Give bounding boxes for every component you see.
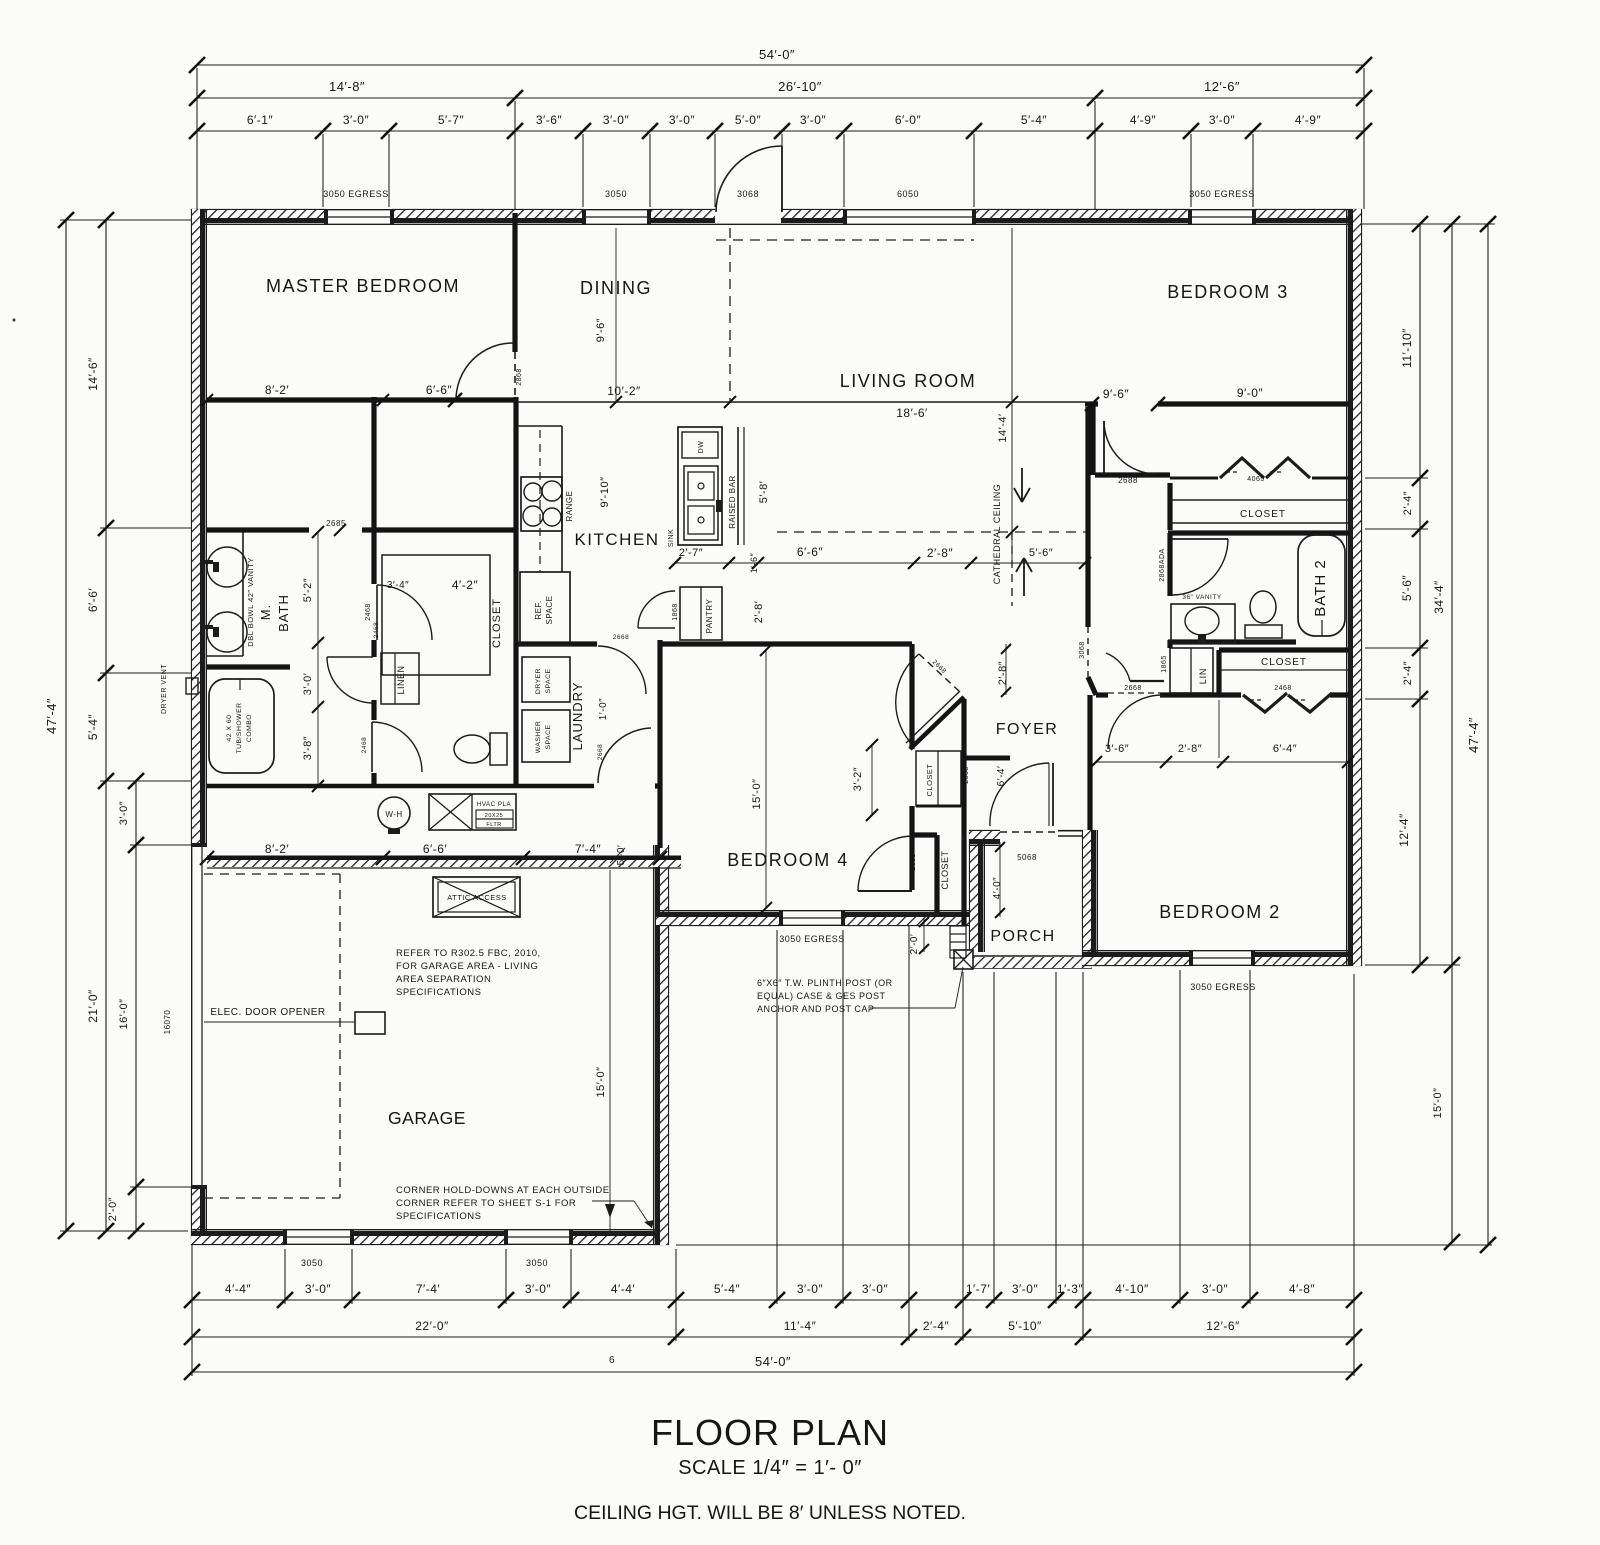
- svg-text:2′-8″: 2′-8″: [1178, 743, 1202, 755]
- svg-text:DW: DW: [698, 441, 705, 454]
- svg-text:CATHEDRAL CEILING: CATHEDRAL CEILING: [992, 484, 1002, 585]
- svg-text:5′-6″: 5′-6″: [1029, 547, 1053, 559]
- svg-text:2′-4″: 2′-4″: [923, 1319, 950, 1333]
- dim line 54-0 top: [197, 64, 1364, 66]
- svg-text:15′-0″: 15′-0″: [595, 1067, 607, 1098]
- tub partition wall: [207, 664, 290, 669]
- bath2 west wall lower: [1167, 640, 1172, 648]
- svg-text:3′-0″: 3′-0″: [800, 113, 827, 127]
- top exterior wall segment: [974, 209, 1190, 211]
- svg-text:BATH 2: BATH 2: [1312, 559, 1329, 616]
- bedroom4 south exterior wall: [843, 924, 969, 926]
- bed2 west wall upper: [1087, 695, 1092, 758]
- tub faucet: [239, 679, 241, 690]
- svg-text:1865: 1865: [1161, 655, 1168, 673]
- leader post: [870, 1007, 955, 1009]
- ext line garage bottom extended: [676, 1244, 1492, 1246]
- mbath inner door arc: [327, 657, 373, 703]
- svg-text:2668: 2668: [1124, 685, 1142, 692]
- svg-text:12′-6″: 12′-6″: [1206, 1319, 1240, 1333]
- ext line: [1082, 972, 1084, 1341]
- ext line: [1365, 647, 1428, 649]
- svg-text:3050: 3050: [526, 1258, 548, 1268]
- bath2 toilet tank: [1245, 625, 1282, 638]
- svg-text:11′-10″: 11′-10″: [1400, 328, 1414, 368]
- sink bowl 2: [688, 506, 714, 534]
- svg-text:6′-0″: 6′-0″: [895, 113, 922, 127]
- svg-text:CLOSET: CLOSET: [491, 598, 503, 648]
- ext line: [191, 1245, 193, 1376]
- bed3 west wall: [1090, 404, 1095, 475]
- svg-text:3′-6″: 3′-6″: [1105, 743, 1129, 755]
- opener box: [355, 1012, 385, 1034]
- svg-text:4′-4″: 4′-4″: [225, 1282, 252, 1296]
- ext line: [1363, 68, 1365, 209]
- svg-text:36″ VANITY: 36″ VANITY: [1182, 594, 1221, 601]
- svg-text:3′-0″: 3′-0″: [118, 801, 130, 825]
- svg-text:2668: 2668: [597, 744, 604, 760]
- svg-text:FOYER: FOYER: [996, 721, 1059, 738]
- dim line 3-2: [871, 745, 873, 815]
- svg-text:14′-6″: 14′-6″: [86, 357, 100, 391]
- svg-text:SPACE: SPACE: [545, 595, 554, 624]
- svg-text:18′-6′: 18′-6′: [896, 406, 928, 420]
- svg-text:BEDROOM 2: BEDROOM 2: [1159, 902, 1281, 922]
- bed2 closet shelf line: [1219, 669, 1349, 671]
- dim line 47-4 left: [65, 220, 67, 1231]
- svg-text:LIVING ROOM: LIVING ROOM: [840, 371, 977, 391]
- bed4 closet inner line: [962, 835, 964, 912]
- svg-text:1′-0″: 1′-0″: [598, 698, 609, 720]
- window 3050 egress bed4: [781, 924, 843, 926]
- washer space box: [522, 710, 570, 762]
- bed3 south wall w stub: [1085, 401, 1098, 406]
- svg-text:SPECIFICATIONS: SPECIFICATIONS: [396, 987, 481, 998]
- ref space box: [520, 572, 570, 645]
- svg-text:3068: 3068: [1079, 641, 1086, 659]
- filter box1: [476, 810, 513, 819]
- ext line: [714, 134, 716, 207]
- bed4 closet north stub: [912, 832, 937, 837]
- pantry door arc: [638, 591, 675, 628]
- ext line: [1094, 101, 1096, 209]
- svg-text:3′-6″: 3′-6″: [536, 113, 563, 127]
- bed4 east wall lower: [909, 806, 914, 890]
- burner4: [543, 508, 561, 526]
- svg-text:6′-6′: 6′-6′: [423, 842, 448, 856]
- garage door dashed bottom: [204, 1197, 340, 1199]
- ext line: [1365, 698, 1428, 700]
- faucet1: [203, 560, 213, 564]
- burner1: [524, 483, 542, 501]
- bath2 tub: [1298, 535, 1345, 636]
- svg-text:26′-10″: 26′-10″: [778, 79, 822, 94]
- svg-text:6: 6: [609, 1355, 615, 1366]
- bed3 door arc: [1104, 421, 1157, 474]
- toilet room door arc: [372, 722, 422, 772]
- svg-text:42 X 60: 42 X 60: [226, 715, 233, 742]
- mbath/laundry south wall: [207, 784, 594, 789]
- porch door 5068 opening dashed: [1000, 831, 1058, 833]
- garage bottom exterior wall: [571, 1243, 669, 1245]
- garage door jamb top: [191, 843, 207, 847]
- left exterior wall lower: [191, 1187, 193, 1245]
- svg-text:HVAC PLA: HVAC PLA: [477, 801, 512, 808]
- svg-text:ATTIC ACCESS: ATTIC ACCESS: [447, 893, 507, 902]
- burner3: [523, 506, 543, 526]
- ext line: [60, 1230, 188, 1232]
- bed3 closet south line: [1170, 522, 1352, 524]
- svg-text:10′-2″: 10′-2″: [607, 384, 641, 398]
- svg-text:6050: 6050: [897, 189, 919, 199]
- ext line: [1365, 964, 1460, 966]
- svg-text:3′-0′: 3′-0′: [302, 673, 314, 696]
- svg-text:1′-7′: 1′-7′: [966, 1282, 991, 1296]
- ext line: [1252, 134, 1254, 207]
- svg-text:9′-6″: 9′-6″: [1103, 387, 1130, 401]
- ext line: [1190, 134, 1192, 207]
- svg-text:2665: 2665: [910, 853, 917, 871]
- left exterior wall upper: [191, 209, 193, 845]
- garage window 3050 left: [285, 1243, 352, 1245]
- right exterior wall: [1360, 209, 1362, 966]
- foyer entry door leaf: [1052, 763, 1054, 826]
- svg-text:14′-8″: 14′-8″: [329, 79, 365, 94]
- garage door opening outer line: [191, 845, 193, 1187]
- svg-text:6″X6″ T.W. PLINTH POST (OR: 6″X6″ T.W. PLINTH POST (OR: [757, 978, 893, 988]
- svg-text:3050: 3050: [301, 1258, 323, 1268]
- bath2 north wall: [1168, 530, 1349, 535]
- ext line: [196, 68, 198, 209]
- porch west wall: [969, 830, 971, 952]
- svg-text:47′-4″: 47′-4″: [44, 698, 59, 734]
- toilet master bath: [454, 735, 490, 763]
- dim line left col3: [135, 781, 137, 1231]
- diagonal door dashed leaf: [919, 654, 959, 691]
- ext line: [1055, 972, 1057, 1304]
- porch slab south edge: [969, 955, 1092, 957]
- opener rail line: [204, 1021, 325, 1023]
- svg-text:3′-0″: 3′-0″: [603, 113, 630, 127]
- bed4 north wall: [660, 641, 912, 646]
- porch slab hatch: [969, 957, 1092, 968]
- svg-text:6′-1″: 6′-1″: [247, 113, 274, 127]
- porch steps: [950, 925, 966, 927]
- dishwasher: [682, 432, 718, 458]
- svg-text:3′-0″: 3′-0″: [343, 113, 370, 127]
- svg-text:21′-0″: 21′-0″: [86, 989, 100, 1023]
- lin door arc: [1106, 653, 1130, 681]
- ext line: [514, 101, 516, 209]
- bath2 sink: [1185, 607, 1219, 635]
- garage door dashed top: [204, 873, 340, 875]
- garage bottom exterior wall: [352, 1243, 506, 1245]
- svg-text:3050 EGRESS: 3050 EGRESS: [1190, 982, 1256, 992]
- top exterior wall segment: [191, 209, 326, 211]
- linen closet master hall: [381, 653, 419, 704]
- svg-text:15′-0″: 15′-0″: [751, 779, 763, 810]
- living dim line: [1011, 228, 1013, 563]
- svg-text:FOR GARAGE AREA - LIVING: FOR GARAGE AREA - LIVING: [396, 961, 538, 972]
- svg-text:CEILING HGT. WILL BE 8′ UNLESS: CEILING HGT. WILL BE 8′ UNLESS NOTED.: [574, 1502, 966, 1524]
- ceiling arrow down: [1014, 468, 1030, 502]
- ext line: [1353, 974, 1355, 1376]
- svg-text:3′-8″: 3′-8″: [302, 736, 314, 760]
- dryer vent box: [186, 678, 198, 694]
- svg-text:SPACE: SPACE: [545, 668, 552, 693]
- svg-text:5′-10″: 5′-10″: [1008, 1319, 1042, 1333]
- svg-text:2′-8″: 2′-8″: [997, 661, 1009, 685]
- dryer space box: [522, 657, 570, 702]
- svg-text:8′-2′: 8′-2′: [265, 842, 290, 856]
- svg-text:12′-6″: 12′-6″: [1204, 79, 1240, 94]
- kitchen counter dash line: [539, 430, 541, 572]
- raised bar line: [737, 427, 739, 545]
- faucet: [1198, 634, 1206, 644]
- garage east exterior wall: [667, 845, 669, 1245]
- svg-text:2′-0″: 2′-0″: [107, 1197, 119, 1221]
- garage bottom exterior wall: [191, 1243, 285, 1245]
- ext line: [1249, 970, 1251, 1304]
- svg-text:4′-8″: 4′-8″: [1289, 1282, 1316, 1296]
- foyer entry door arc: [990, 763, 1049, 826]
- mbath east wall seg1: [371, 530, 376, 584]
- svg-text:2′-8′: 2′-8′: [753, 601, 765, 624]
- vanity counter edge: [242, 532, 244, 656]
- faucet2: [203, 625, 213, 629]
- dim line foyer row: [675, 562, 1085, 564]
- dim line row3 top: [197, 130, 1364, 132]
- laundry north door arc: [598, 646, 646, 694]
- foyer diagonal wall: [910, 697, 964, 749]
- dim line mbath vertical: [317, 532, 319, 786]
- bath2 toilet: [1250, 591, 1276, 623]
- closet front wall e: [1312, 477, 1352, 480]
- mbath east wall seg2: [371, 640, 376, 657]
- svg-text:GARAGE: GARAGE: [388, 1108, 466, 1128]
- svg-text:3050 EGRESS: 3050 EGRESS: [1189, 189, 1255, 199]
- ext line: [570, 1249, 572, 1304]
- svg-text:FLTR: FLTR: [486, 822, 501, 828]
- master bedroom door arc: [456, 343, 513, 400]
- cathedral ceiling dashed: [777, 531, 1086, 533]
- bed3 door leaf: [1103, 421, 1105, 474]
- diagonal door arc: [896, 654, 919, 742]
- svg-text:3068: 3068: [737, 189, 759, 199]
- svg-text:3′-0″: 3′-0″: [669, 113, 696, 127]
- master closet west wall upper: [371, 397, 376, 530]
- svg-text:7′-4′: 7′-4′: [416, 1282, 441, 1296]
- svg-text:LAUNDRY: LAUNDRY: [570, 682, 585, 751]
- svg-text:3050: 3050: [605, 189, 627, 199]
- bifold door bed2 closet w: [1243, 693, 1287, 712]
- bed4 closet door arc: [858, 836, 912, 891]
- svg-text:KITCHEN: KITCHEN: [574, 530, 659, 549]
- bed2 north wall stub w: [1096, 692, 1108, 697]
- bedroom4 south exterior wall: [656, 924, 781, 926]
- wall jog: [1088, 677, 1096, 695]
- svg-text:5′-4″: 5′-4″: [714, 1282, 741, 1296]
- svg-text:4′-9″: 4′-9″: [1130, 113, 1157, 127]
- top exterior wall segment: [781, 209, 845, 211]
- svg-text:2688: 2688: [1118, 476, 1138, 485]
- ext line: [993, 972, 995, 1304]
- bed4 closet east wall: [961, 699, 966, 926]
- vanity sink 2: [207, 612, 247, 652]
- tub2 faucet: [1321, 620, 1323, 636]
- kitchen island: [678, 427, 722, 545]
- master bath north wall e: [362, 527, 516, 532]
- top exterior wall segment: [392, 209, 584, 211]
- svg-text:3′-0″: 3′-0″: [1012, 1282, 1039, 1296]
- kitchen counter edge west: [561, 426, 563, 572]
- bed2 closet west wall: [1216, 650, 1221, 693]
- dim line right col2: [1451, 224, 1453, 1242]
- bifold door bed2 closet e: [1288, 693, 1332, 712]
- water heater: [378, 797, 410, 829]
- hvac platform: [429, 794, 516, 830]
- svg-text:CLOSET: CLOSET: [1261, 657, 1307, 668]
- garage separation wall: [207, 856, 681, 861]
- svg-text:47′-4″: 47′-4″: [1466, 717, 1481, 753]
- svg-text:34′-4″: 34′-4″: [1432, 580, 1446, 614]
- svg-text:2′-7″: 2′-7″: [679, 547, 703, 559]
- laundry south stub: [655, 783, 660, 788]
- ext line: [962, 972, 964, 1341]
- ext line: [388, 134, 390, 207]
- foyer south wall stub: [963, 756, 1010, 761]
- svg-text:1868: 1868: [672, 603, 679, 621]
- bifold bed3 closet e: [1266, 458, 1310, 478]
- svg-text:PORCH: PORCH: [990, 928, 1055, 945]
- ext line: [1362, 223, 1495, 225]
- dim line left col2: [105, 220, 107, 1231]
- sink bowl 1: [688, 472, 714, 500]
- svg-text:4′-2″: 4′-2″: [452, 578, 479, 592]
- svg-text:RAISED BAR: RAISED BAR: [728, 475, 737, 528]
- svg-text:12′-4″: 12′-4″: [1397, 813, 1411, 847]
- bed2 north wall mid: [1160, 692, 1241, 697]
- svg-text:6′-6″: 6′-6″: [797, 545, 824, 559]
- svg-text:BEDROOM 3: BEDROOM 3: [1167, 282, 1289, 302]
- svg-text:REFER TO R302.5 FBC, 2010,: REFER TO R302.5 FBC, 2010,: [396, 948, 541, 959]
- ext line: [284, 1249, 286, 1304]
- kitchen sink box: [684, 466, 718, 540]
- tub 42x60: [209, 679, 274, 773]
- svg-text:54′-0″: 54′-0″: [755, 1354, 791, 1369]
- svg-text:LIN: LIN: [1198, 668, 1208, 684]
- svg-text:6′-6″: 6′-6″: [426, 383, 453, 397]
- svg-text:REF.: REF.: [534, 600, 543, 619]
- top exterior wall segment: [649, 209, 715, 211]
- bath2 south wall: [1168, 639, 1296, 644]
- porch top wall east stub: [1058, 830, 1092, 832]
- ext line: [781, 134, 783, 207]
- svg-text:6′-4″: 6′-4″: [1273, 743, 1297, 755]
- svg-text:3050 EGRESS: 3050 EGRESS: [323, 189, 389, 199]
- kitchen counter top edge: [518, 425, 562, 427]
- filter box2: [476, 819, 513, 828]
- svg-text:1′-3″: 1′-3″: [1057, 1282, 1084, 1296]
- burner2: [542, 481, 562, 501]
- ext line: [675, 1249, 677, 1341]
- svg-text:ANCHOR AND POST CAP: ANCHOR AND POST CAP: [757, 1004, 874, 1014]
- garage center dim line: [609, 870, 611, 1232]
- hall east wall (bed3 hall): [1085, 407, 1090, 627]
- svg-text:W-H: W-H: [385, 810, 402, 819]
- dining west wall: [512, 213, 517, 352]
- svg-text:2′-8″: 2′-8″: [927, 546, 954, 560]
- master bath north wall w: [207, 527, 309, 532]
- ext: [1218, 700, 1220, 758]
- bed4 closet west wall: [934, 835, 939, 912]
- ext line: [100, 527, 191, 529]
- foyer/porch south wall west stub: [969, 830, 1000, 832]
- garage wall hatch: [207, 860, 681, 867]
- master closet inner box: [382, 555, 490, 675]
- shared door leaf: [1130, 680, 1164, 682]
- svg-text:PANTRY: PANTRY: [705, 598, 714, 633]
- ext line: [100, 780, 191, 782]
- attic access inner: [438, 882, 515, 912]
- ext line: [973, 134, 975, 207]
- svg-text:2′-0′: 2′-0′: [909, 934, 920, 955]
- svg-text:22′-0″: 22′-0″: [415, 1319, 449, 1333]
- svg-text:4′-0″: 4′-0″: [992, 877, 1003, 899]
- svg-text:9′-6″: 9′-6″: [595, 318, 607, 342]
- svg-text:DRYER: DRYER: [535, 668, 542, 694]
- svg-text:COMBO: COMBO: [246, 714, 253, 742]
- svg-text:3′-0″: 3′-0″: [1202, 1282, 1229, 1296]
- window 3050 dining: [584, 209, 649, 211]
- svg-text:6′-6′: 6′-6′: [86, 588, 100, 613]
- svg-text:CLOSET: CLOSET: [925, 763, 934, 796]
- bedroom2 south exterior wall: [1082, 964, 1191, 966]
- svg-text:RANGE: RANGE: [565, 491, 574, 522]
- svg-text:11′-4″: 11′-4″: [784, 1319, 817, 1333]
- bath2 west wall upper: [1167, 533, 1172, 596]
- svg-text:4′-9″: 4′-9″: [1295, 113, 1322, 127]
- svg-text:M.: M.: [258, 604, 273, 620]
- front door swing arc: [716, 146, 782, 212]
- bed2 door arc: [1108, 695, 1162, 749]
- linen closet bath2 hall: [1170, 648, 1213, 693]
- svg-text:5′-7″: 5′-7″: [438, 113, 465, 127]
- svg-text:SPECIFICATIONS: SPECIFICATIONS: [396, 1211, 481, 1222]
- cathedral dashed vertical: [1011, 532, 1013, 606]
- bed3 closet west wall: [1167, 483, 1172, 530]
- master bedroom door opening dashed: [514, 352, 516, 397]
- top exterior wall segment: [1254, 209, 1362, 211]
- mbath east wall seg3: [371, 700, 376, 720]
- svg-text:CLOSET: CLOSET: [940, 850, 950, 889]
- ext line: [1365, 528, 1428, 530]
- svg-text:CLOSET: CLOSET: [1240, 509, 1286, 520]
- garage dim arrow: [605, 1204, 615, 1218]
- svg-text:3′-0″: 3′-0″: [797, 1282, 824, 1296]
- dim line rowB bottom: [192, 1336, 1354, 1338]
- window 6050 living: [845, 209, 974, 211]
- leader arrowhead: [644, 1220, 654, 1228]
- svg-text:4′-4′: 4′-4′: [611, 1282, 636, 1296]
- bed3 closet north line: [1170, 499, 1352, 501]
- svg-text:2868: 2868: [516, 368, 523, 386]
- bed4 closet door leaf: [858, 890, 912, 892]
- svg-text:LINEN: LINEN: [396, 665, 406, 694]
- svg-text:AREA SEPARATION: AREA SEPARATION: [396, 974, 491, 985]
- svg-text:3′-2″: 3′-2″: [852, 767, 864, 791]
- ext line: [776, 930, 778, 1304]
